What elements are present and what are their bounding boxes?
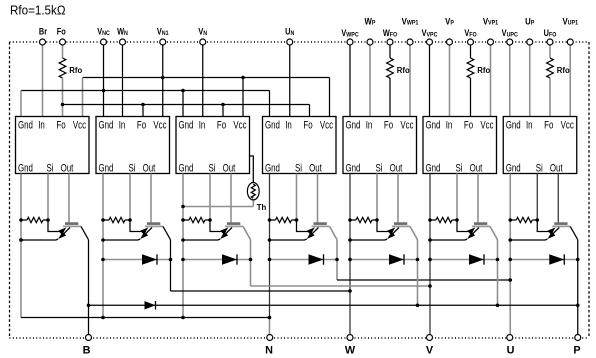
svg-text:Fo: Fo	[544, 119, 553, 132]
svg-text:Fo: Fo	[303, 119, 312, 132]
svg-text:Si: Si	[536, 162, 543, 175]
svg-text:Vcc: Vcc	[153, 119, 166, 132]
svg-text:Gnd: Gnd	[265, 162, 280, 175]
svg-text:Out: Out	[223, 162, 236, 175]
svg-text:Vcc: Vcc	[233, 119, 246, 132]
svg-text:In: In	[38, 119, 45, 132]
svg-text:WN: WN	[117, 27, 128, 37]
svg-text:Si: Si	[295, 162, 302, 175]
svg-text:Th: Th	[257, 203, 267, 212]
svg-text:VFO: VFO	[464, 28, 477, 38]
svg-text:Out: Out	[550, 162, 563, 175]
svg-text:Si: Si	[128, 162, 135, 175]
svg-text:In: In	[526, 119, 533, 132]
svg-text:UN: UN	[285, 27, 294, 37]
svg-text:Vcc: Vcc	[320, 119, 333, 132]
svg-text:Gnd: Gnd	[179, 119, 194, 132]
svg-text:In: In	[366, 119, 373, 132]
svg-text:Fo: Fo	[464, 119, 473, 132]
svg-text:Gnd: Gnd	[506, 162, 521, 175]
svg-text:VVPC: VVPC	[422, 28, 439, 38]
svg-text:Gnd: Gnd	[265, 119, 280, 132]
svg-text:VWP1: VWP1	[402, 16, 419, 27]
svg-text:B: B	[83, 344, 91, 356]
svg-text:Out: Out	[61, 162, 74, 175]
svg-text:Rfo: Rfo	[557, 66, 570, 75]
svg-text:Gnd: Gnd	[426, 119, 441, 132]
svg-text:Vcc: Vcc	[73, 119, 86, 132]
svg-text:Gnd: Gnd	[18, 162, 33, 175]
svg-text:Gnd: Gnd	[18, 119, 33, 132]
svg-text:Si: Si	[455, 162, 462, 175]
svg-text:Rfo: Rfo	[477, 66, 490, 75]
svg-text:WFO: WFO	[383, 28, 398, 38]
svg-text:V: V	[426, 344, 434, 356]
svg-text:Gnd: Gnd	[426, 162, 441, 175]
svg-text:Out: Out	[143, 162, 156, 175]
svg-text:Gnd: Gnd	[179, 162, 194, 175]
svg-text:Si: Si	[46, 162, 53, 175]
svg-text:Fo: Fo	[384, 119, 393, 132]
svg-text:WP: WP	[365, 16, 376, 27]
svg-text:Gnd: Gnd	[99, 119, 114, 132]
svg-text:In: In	[199, 119, 206, 132]
svg-text:Fo: Fo	[56, 119, 65, 132]
svg-text:VUP1: VUP1	[562, 16, 578, 27]
svg-text:Gnd: Gnd	[346, 162, 361, 175]
svg-text:UFO: UFO	[544, 28, 557, 38]
svg-text:Fo: Fo	[57, 27, 66, 37]
svg-text:Rfo=1.5kΩ: Rfo=1.5kΩ	[10, 3, 66, 17]
svg-text:VUPC: VUPC	[502, 28, 519, 38]
svg-text:Vcc: Vcc	[480, 119, 493, 132]
svg-text:Gnd: Gnd	[346, 119, 361, 132]
svg-text:Out: Out	[390, 162, 403, 175]
svg-text:VWPC: VWPC	[341, 28, 359, 38]
svg-text:Out: Out	[309, 162, 322, 175]
svg-text:P: P	[573, 344, 580, 356]
svg-text:VP: VP	[445, 16, 454, 27]
svg-text:Out: Out	[470, 162, 483, 175]
svg-text:Vcc: Vcc	[400, 119, 413, 132]
svg-text:In: In	[119, 119, 126, 132]
svg-text:In: In	[446, 119, 453, 132]
svg-text:W: W	[345, 344, 356, 356]
svg-text:Br: Br	[39, 27, 48, 37]
svg-text:VN1: VN1	[157, 27, 169, 37]
svg-text:VVP1: VVP1	[483, 16, 499, 27]
svg-text:Fo: Fo	[137, 119, 146, 132]
svg-text:VNC: VNC	[97, 27, 110, 37]
svg-text:U: U	[507, 344, 515, 356]
svg-text:Rfo: Rfo	[397, 66, 410, 75]
svg-text:Gnd: Gnd	[506, 119, 521, 132]
svg-text:N: N	[265, 344, 273, 356]
svg-text:UP: UP	[525, 16, 534, 27]
svg-text:Rfo: Rfo	[69, 66, 82, 75]
svg-text:Fo: Fo	[217, 119, 226, 132]
svg-text:Vcc: Vcc	[561, 119, 574, 132]
svg-text:Si: Si	[375, 162, 382, 175]
svg-text:Gnd: Gnd	[99, 162, 114, 175]
svg-text:In: In	[285, 119, 292, 132]
svg-text:Si: Si	[208, 162, 215, 175]
svg-text:VN: VN	[198, 27, 207, 37]
